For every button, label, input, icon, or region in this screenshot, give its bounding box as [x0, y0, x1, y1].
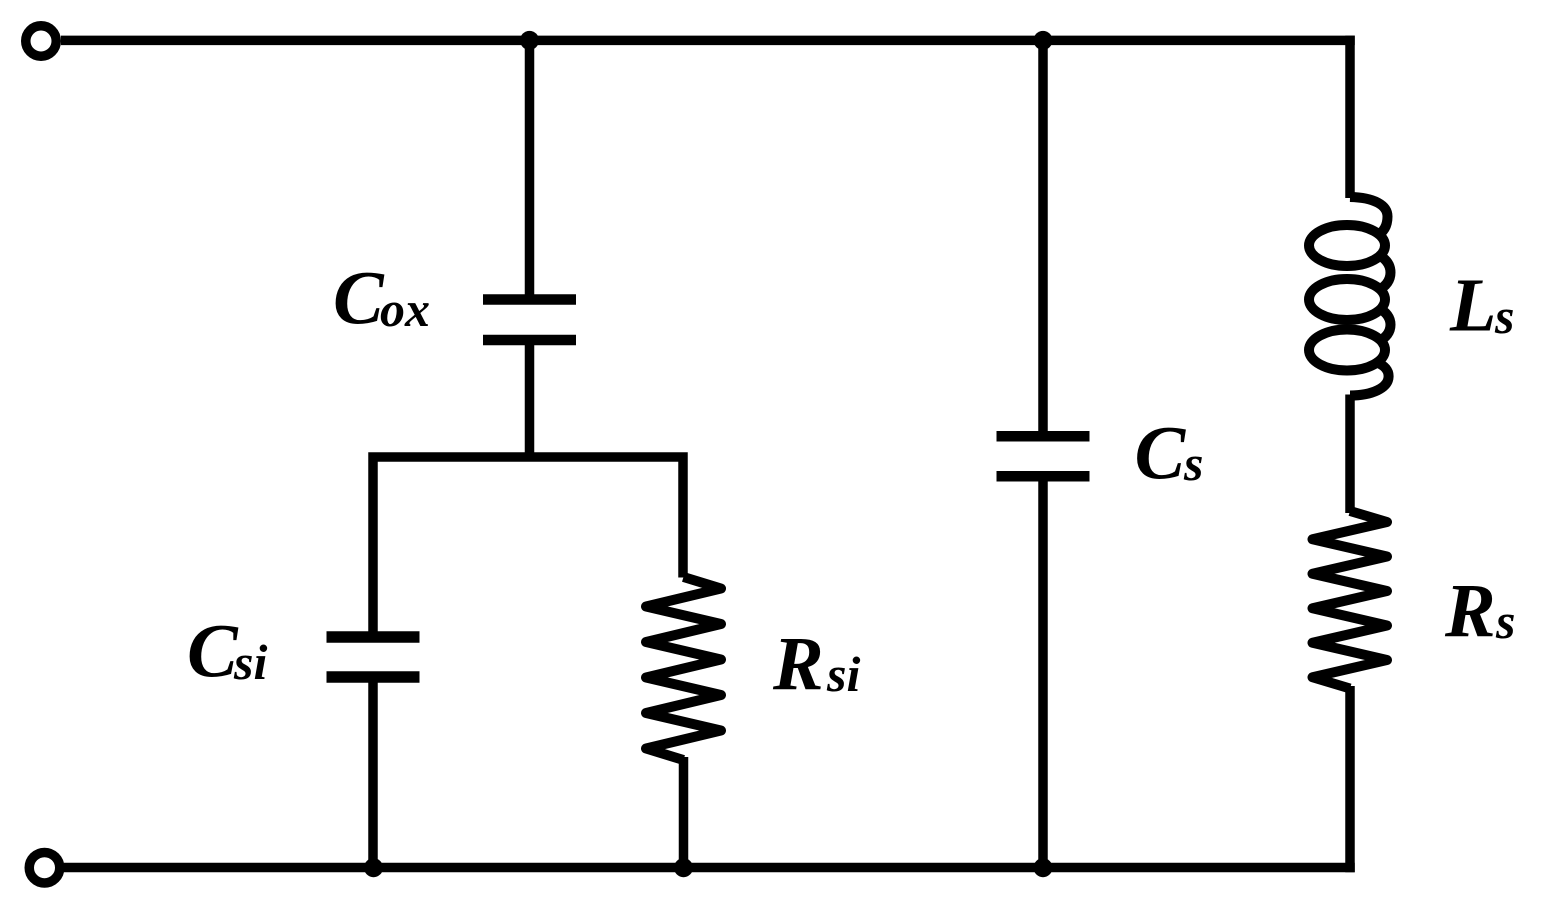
node (junction dot, bottom rail / Cs branch) — [1034, 858, 1053, 877]
label Cs — [1135, 411, 1204, 495]
svg-text:R: R — [1444, 569, 1496, 653]
svg-text:C: C — [1135, 411, 1187, 495]
wire (sub-network top tee: left corner, top side, right corner) — [373, 457, 683, 632]
node (junction dot, top rail / Cs branch) — [1034, 31, 1053, 50]
terminal (top-left port) — [26, 26, 57, 57]
svg-text:si: si — [826, 646, 860, 702]
node (junction dot, bottom rail / Csi branch) — [364, 858, 383, 877]
label Cox — [333, 257, 430, 341]
svg-text:s: s — [1494, 288, 1514, 344]
wire (Rsi down to bottom rail) — [679, 757, 689, 872]
wire (right branch, top rail corner down to Ls) — [1345, 36, 1355, 198]
svg-text:s: s — [1183, 435, 1203, 491]
node (junction dot, bottom rail / Rsi branch) — [674, 858, 693, 877]
wire (bottom rail) — [64, 863, 1355, 873]
svg-text:C: C — [333, 257, 385, 341]
svg-text:si: si — [233, 634, 267, 690]
svg-text:L: L — [1449, 264, 1496, 348]
svg-text:C: C — [187, 610, 239, 694]
label Rs — [1444, 569, 1515, 653]
wire (Cs down to bottom rail) — [1038, 481, 1048, 872]
svg-text:R: R — [772, 622, 824, 706]
capacitor Cs — [997, 436, 1090, 476]
label Csi — [187, 610, 267, 694]
node (junction dot, top rail / Cox branch) — [520, 31, 539, 50]
wire (top rail down to Cox) — [525, 36, 535, 296]
wire (top rail) — [61, 36, 1355, 46]
svg-text:ox: ox — [380, 281, 430, 337]
wire (Cox to sub-network top) — [525, 345, 535, 457]
capacitor Csi — [327, 637, 420, 677]
wire (Csi down to bottom rail) — [368, 682, 378, 872]
resistor Rs — [1313, 511, 1388, 689]
label Rsi — [772, 622, 860, 706]
wire (Ls to Rs) — [1345, 395, 1355, 514]
terminal (bottom-left port) — [29, 852, 60, 883]
inductor Ls — [1309, 197, 1391, 396]
capacitor Cox — [483, 300, 576, 341]
resistor Rsi — [646, 577, 721, 760]
svg-text:s: s — [1495, 593, 1515, 649]
wire (top rail down to Cs) — [1038, 36, 1048, 433]
label Ls — [1449, 264, 1514, 348]
wire (Rs down to bottom rail corner) — [1345, 686, 1355, 872]
